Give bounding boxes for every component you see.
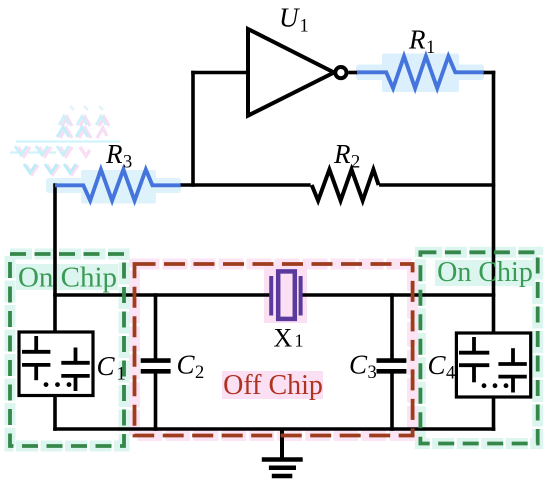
svg-text:C: C — [177, 350, 196, 380]
svg-text:1: 1 — [300, 17, 309, 37]
svg-text:On Chip: On Chip — [18, 262, 117, 294]
svg-text:C: C — [349, 350, 368, 380]
highlight band Off Chip — [222, 371, 323, 399]
crystal X1 — [271, 271, 300, 319]
Off Chip box (red dashed) — [135, 264, 413, 436]
highlight band On Chip right — [435, 260, 535, 286]
wire inverter output lead — [348, 71, 358, 75]
wire node row left (to crystal) — [53, 293, 270, 297]
highlight band On Chip left — [16, 264, 118, 290]
capacitor C3 — [377, 361, 407, 372]
svg-text:R: R — [408, 25, 426, 55]
svg-text:1: 1 — [295, 331, 304, 351]
svg-text:X: X — [274, 324, 293, 353]
wire right rail upper — [492, 71, 496, 334]
wire right rail lower — [492, 396, 496, 431]
svg-text:R: R — [105, 139, 123, 169]
svg-text:R: R — [333, 139, 351, 169]
capacitor C2 — [141, 361, 171, 372]
wire left rail upper — [53, 183, 57, 333]
highlight band green box right — [420, 252, 537, 443]
wire mid horizontal left (R3 out to R2) — [180, 183, 311, 187]
highlight band red box — [135, 264, 413, 436]
svg-text:2: 2 — [195, 363, 204, 383]
capacitor bank C4 — [456, 333, 530, 397]
wire C3 branch lower — [390, 371, 394, 431]
highlight band X1 — [264, 265, 307, 323]
highlight band R1 — [356, 54, 484, 93]
svg-text:1: 1 — [426, 38, 435, 58]
resistor R3 — [55, 170, 181, 201]
svg-text:3: 3 — [123, 153, 132, 173]
svg-text:Off Chip: Off Chip — [223, 370, 323, 401]
On Chip box left (green dashed) — [10, 254, 124, 446]
wire mid horizontal right (R2 to right rail) — [379, 183, 495, 187]
wire bottom — [53, 427, 495, 431]
wire node row right (crystal to right rail) — [302, 293, 495, 297]
resistor R2 — [312, 170, 379, 201]
capacitor bank C1 — [19, 332, 93, 396]
wire left rail lower — [53, 395, 57, 431]
svg-text:C: C — [428, 350, 447, 380]
op-amp U1 output bubble — [335, 67, 346, 78]
svg-text:4: 4 — [446, 364, 455, 384]
wire inverter input vertical — [191, 71, 195, 187]
wire inverter input horizontal — [191, 71, 248, 75]
ground — [262, 429, 303, 476]
wire C3 branch upper — [390, 293, 394, 360]
resistor R1 — [357, 56, 484, 88]
svg-text:1: 1 — [117, 365, 126, 385]
svg-text:C: C — [97, 351, 116, 381]
op-amp U1 inverter triangle — [248, 29, 334, 116]
highlight band R3 — [46, 170, 181, 204]
wire C2 branch upper — [154, 293, 158, 360]
svg-text:U: U — [279, 3, 300, 33]
highlight band green box left — [10, 254, 124, 446]
svg-text:2: 2 — [351, 153, 360, 173]
wire C2 branch lower — [154, 371, 158, 431]
svg-text:3: 3 — [368, 363, 377, 383]
svg-text:On Chip: On Chip — [437, 257, 533, 288]
wire R1 right black lead — [483, 71, 496, 75]
On Chip box right (green dashed) — [420, 252, 537, 443]
